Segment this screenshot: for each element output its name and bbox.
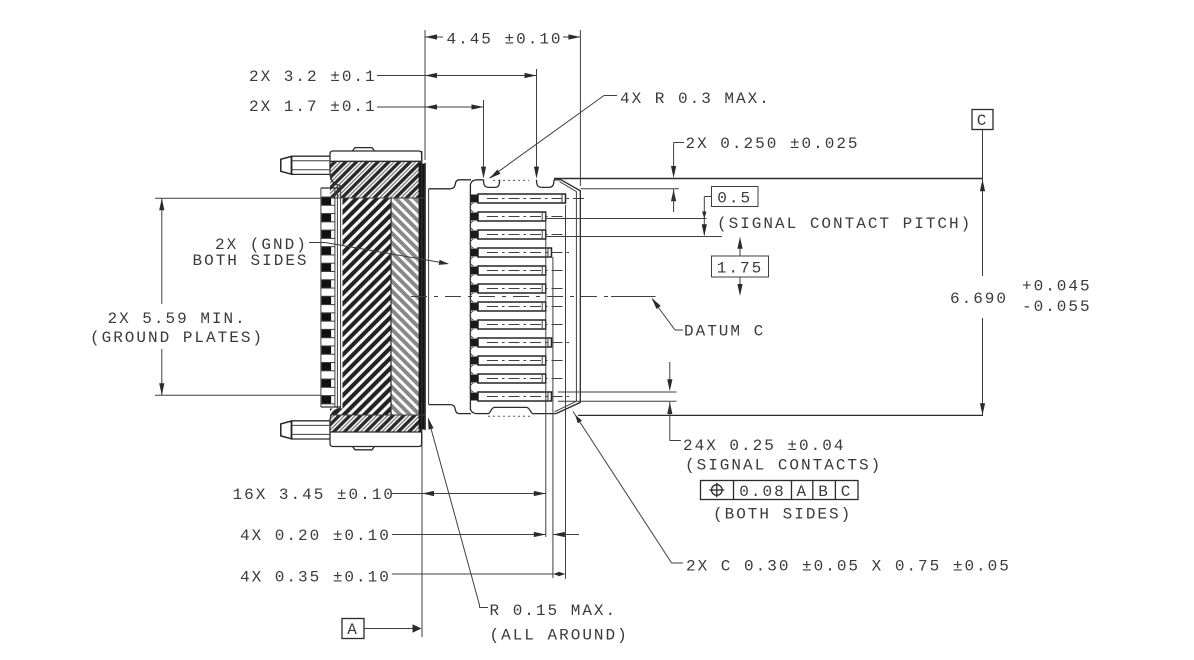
svg-text:C: C	[977, 112, 989, 130]
svg-text:(SIGNAL CONTACTS): (SIGNAL CONTACTS)	[685, 457, 882, 475]
svg-text:BOTH SIDES: BOTH SIDES	[193, 252, 309, 270]
svg-text:4X 0.20 ±0.10: 4X 0.20 ±0.10	[240, 527, 391, 545]
svg-text:4X R 0.3 MAX.: 4X R 0.3 MAX.	[620, 90, 771, 108]
svg-text:-0.055: -0.055	[1022, 298, 1092, 316]
svg-text:A: A	[347, 621, 359, 639]
svg-text:2X 5.59 MIN.: 2X 5.59 MIN.	[108, 310, 247, 328]
svg-text:2X C 0.30 ±0.05 X 0.75 ±0.05: 2X C 0.30 ±0.05 X 0.75 ±0.05	[686, 558, 1011, 576]
svg-text:C: C	[841, 483, 853, 501]
svg-text:(GROUND PLATES): (GROUND PLATES)	[90, 329, 264, 347]
svg-text:(SIGNAL CONTACT PITCH): (SIGNAL CONTACT PITCH)	[717, 215, 972, 233]
svg-text:2X 0.250 ±0.025: 2X 0.250 ±0.025	[686, 135, 860, 153]
svg-text:(ALL AROUND): (ALL AROUND)	[490, 627, 629, 645]
svg-text:4X 0.35 ±0.10: 4X 0.35 ±0.10	[240, 569, 391, 587]
svg-text:24X 0.25 ±0.04: 24X 0.25 ±0.04	[683, 437, 845, 455]
svg-text:(BOTH SIDES): (BOTH SIDES)	[713, 506, 852, 524]
svg-text:B: B	[818, 483, 830, 501]
svg-text:2X 3.2 ±0.1: 2X 3.2 ±0.1	[249, 68, 377, 86]
svg-text:16X 3.45 ±0.10: 16X 3.45 ±0.10	[233, 486, 395, 504]
svg-text:1.75: 1.75	[717, 259, 763, 277]
svg-text:R 0.15 MAX.: R 0.15 MAX.	[490, 602, 618, 620]
svg-text:A: A	[796, 483, 808, 501]
svg-text:+0.045: +0.045	[1022, 278, 1092, 296]
svg-text:2X 1.7 ±0.1: 2X 1.7 ±0.1	[249, 98, 377, 116]
svg-text:0.08: 0.08	[739, 483, 785, 501]
svg-text:DATUM C: DATUM C	[684, 323, 765, 341]
svg-text:4.45 ±0.10: 4.45 ±0.10	[447, 31, 563, 49]
svg-text:0.5: 0.5	[717, 189, 752, 207]
svg-text:6.690: 6.690	[950, 290, 1008, 308]
